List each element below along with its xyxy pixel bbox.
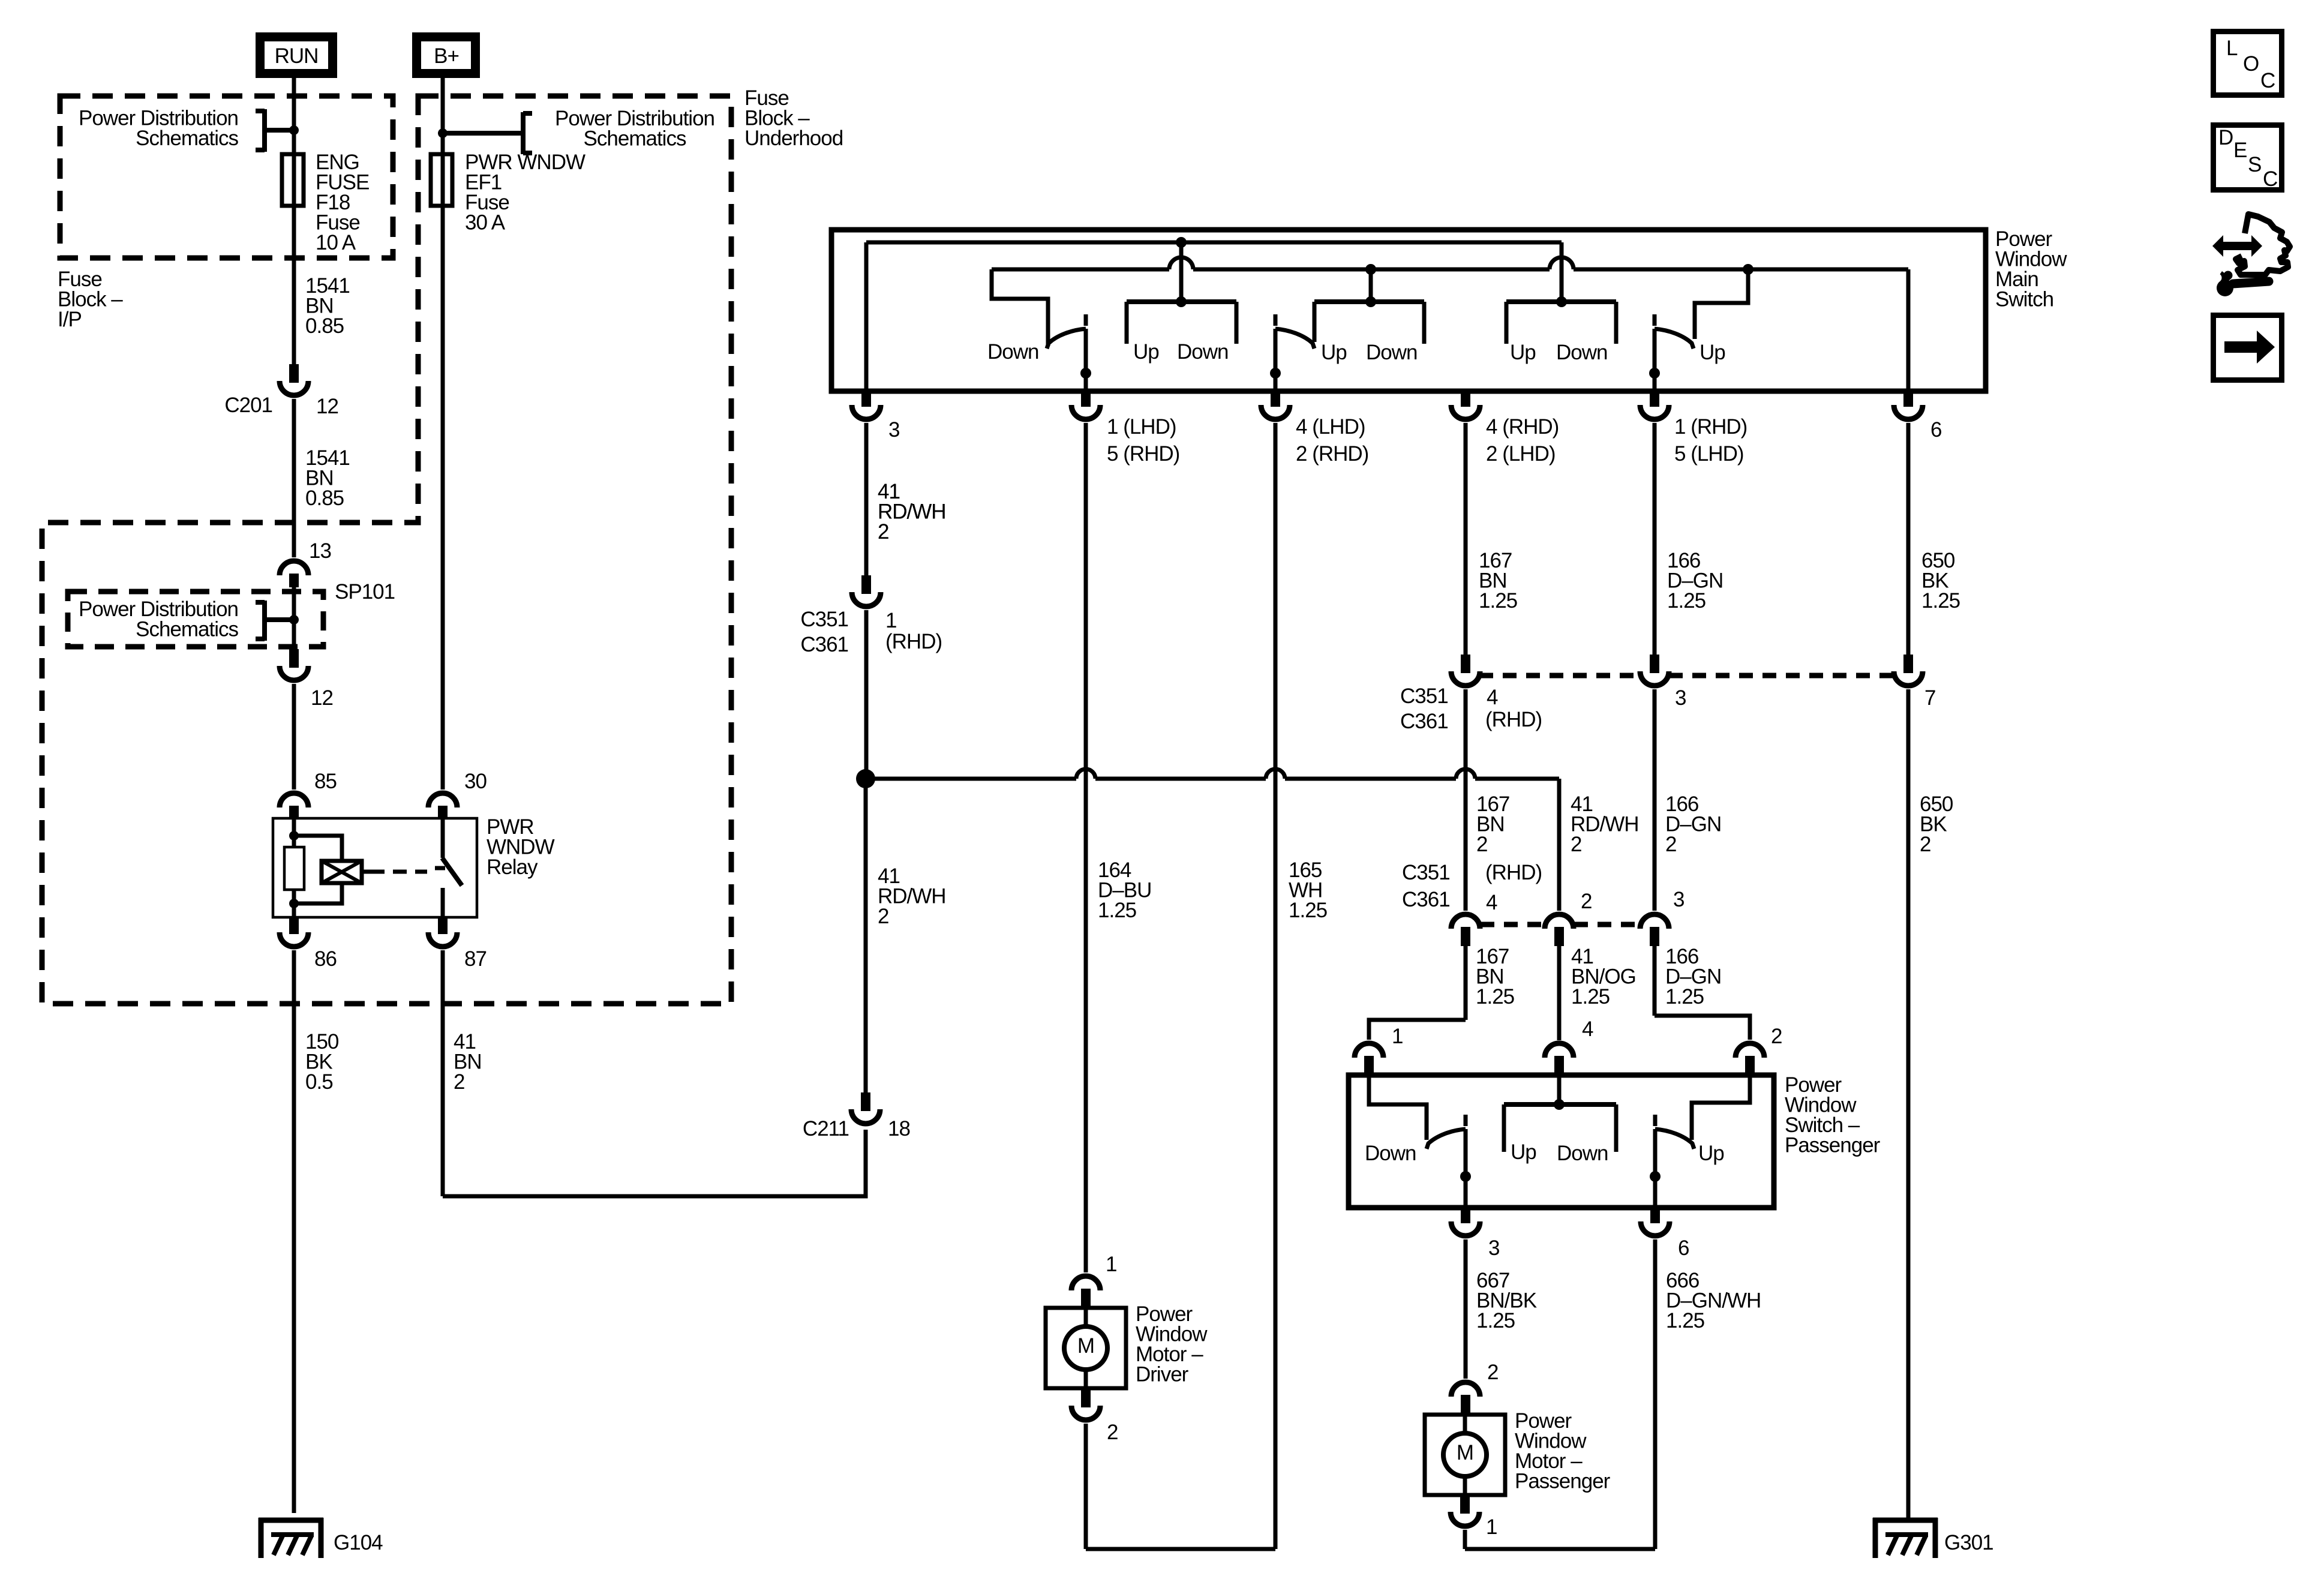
svg-text:4: 4 (1582, 1017, 1593, 1041)
svg-text:D: D (2218, 126, 2233, 149)
svg-text:G104: G104 (334, 1531, 383, 1554)
svg-text:2: 2 (878, 905, 888, 928)
svg-text:2: 2 (1487, 1361, 1498, 1384)
svg-text:Down: Down (1366, 341, 1417, 364)
svg-text:1.25: 1.25 (1098, 899, 1136, 922)
svg-text:C361: C361 (1402, 888, 1450, 911)
svg-text:SP101: SP101 (335, 580, 395, 604)
svg-text:(RHD): (RHD) (1485, 708, 1542, 731)
svg-text:0.5: 0.5 (305, 1070, 333, 1094)
svg-text:Up: Up (1698, 1142, 1724, 1165)
svg-text:87: 87 (464, 947, 487, 971)
svg-text:2 (LHD): 2 (LHD) (1486, 442, 1556, 466)
svg-text:1.25: 1.25 (1667, 589, 1706, 613)
svg-text:O: O (2243, 52, 2259, 76)
svg-text:Driver: Driver (1136, 1363, 1189, 1386)
svg-text:2 (RHD): 2 (RHD) (1296, 442, 1368, 466)
svg-text:7: 7 (1924, 686, 1935, 710)
svg-text:Schematics: Schematics (584, 127, 686, 151)
svg-text:30: 30 (464, 770, 487, 793)
svg-text:5 (RHD): 5 (RHD) (1107, 442, 1179, 466)
svg-text:1.25: 1.25 (1476, 985, 1514, 1008)
svg-text:Down: Down (1365, 1142, 1416, 1165)
svg-text:Up: Up (1510, 341, 1536, 364)
svg-text:Schematics: Schematics (136, 618, 238, 641)
svg-text:C351: C351 (1400, 685, 1448, 708)
svg-text:I/P: I/P (58, 308, 82, 331)
svg-text:86: 86 (314, 947, 337, 971)
svg-text:1 (RHD): 1 (RHD) (1674, 415, 1747, 439)
svg-text:Up: Up (1321, 341, 1347, 364)
svg-text:1: 1 (1106, 1253, 1116, 1276)
svg-text:1.25: 1.25 (1479, 589, 1517, 613)
svg-text:12: 12 (316, 395, 338, 418)
svg-text:C: C (2260, 69, 2275, 92)
svg-text:1.25: 1.25 (1289, 899, 1327, 922)
svg-text:3: 3 (1488, 1236, 1499, 1260)
svg-text:85: 85 (314, 770, 337, 793)
svg-text:2: 2 (1107, 1421, 1118, 1444)
svg-text:30 A: 30 A (465, 211, 506, 235)
svg-text:0.85: 0.85 (305, 487, 344, 510)
svg-text:L: L (2226, 37, 2238, 60)
svg-text:3: 3 (1673, 888, 1684, 911)
svg-text:1: 1 (885, 609, 896, 632)
svg-text:1.25: 1.25 (1476, 1309, 1515, 1332)
svg-text:C211: C211 (803, 1117, 849, 1140)
svg-text:18: 18 (888, 1117, 910, 1140)
svg-text:C351: C351 (1402, 861, 1450, 884)
svg-text:6: 6 (1930, 418, 1941, 442)
svg-text:Up: Up (1700, 341, 1725, 364)
svg-text:C: C (2263, 167, 2277, 191)
svg-text:1.25: 1.25 (1666, 1309, 1704, 1332)
svg-text:Down: Down (987, 340, 1038, 364)
svg-text:(RHD): (RHD) (1485, 861, 1542, 884)
svg-text:4: 4 (1486, 891, 1497, 914)
svg-text:Passenger: Passenger (1785, 1134, 1881, 1157)
svg-text:3: 3 (1675, 686, 1686, 710)
svg-text:S: S (2248, 153, 2261, 176)
svg-text:Schematics: Schematics (136, 127, 238, 150)
svg-text:B+: B+ (434, 44, 459, 68)
svg-text:M: M (1457, 1441, 1473, 1464)
svg-text:2: 2 (878, 520, 888, 544)
svg-text:Underhood: Underhood (744, 127, 843, 150)
svg-text:2: 2 (1476, 833, 1487, 856)
svg-text:2: 2 (1581, 890, 1592, 913)
svg-text:C361: C361 (1400, 710, 1448, 733)
svg-text:Relay: Relay (487, 855, 538, 879)
svg-text:2: 2 (1920, 833, 1930, 856)
svg-text:C361: C361 (800, 633, 848, 656)
svg-text:12: 12 (311, 686, 333, 710)
svg-text:M: M (1077, 1334, 1094, 1358)
svg-text:E: E (2233, 139, 2247, 162)
svg-text:13: 13 (309, 539, 331, 563)
svg-text:RUN: RUN (275, 44, 319, 68)
svg-text:1: 1 (1486, 1515, 1497, 1539)
svg-text:Down: Down (1556, 341, 1607, 364)
svg-text:G301: G301 (1944, 1531, 1993, 1554)
svg-text:3: 3 (888, 418, 899, 442)
svg-text:6: 6 (1678, 1236, 1689, 1260)
svg-text:Up: Up (1511, 1140, 1536, 1164)
svg-text:Passenger: Passenger (1515, 1470, 1611, 1493)
svg-text:2: 2 (454, 1070, 464, 1094)
svg-text:C351: C351 (800, 608, 848, 631)
svg-text:C201: C201 (224, 394, 272, 417)
svg-text:Up: Up (1133, 340, 1159, 364)
svg-text:Down: Down (1557, 1142, 1608, 1165)
svg-text:1.25: 1.25 (1921, 589, 1960, 613)
svg-text:Switch: Switch (1995, 288, 2053, 311)
svg-text:2: 2 (1571, 833, 1581, 856)
svg-text:0.85: 0.85 (305, 314, 344, 338)
svg-text:2: 2 (1665, 833, 1676, 856)
svg-text:Down: Down (1177, 340, 1228, 364)
svg-text:10 A: 10 A (316, 231, 356, 254)
svg-text:2: 2 (1771, 1025, 1782, 1048)
svg-text:1.25: 1.25 (1571, 985, 1610, 1008)
svg-text:4 (LHD): 4 (LHD) (1296, 415, 1365, 439)
svg-text:1: 1 (1392, 1025, 1403, 1048)
svg-text:1 (LHD): 1 (LHD) (1107, 415, 1176, 439)
svg-text:4 (RHD): 4 (RHD) (1486, 415, 1559, 439)
svg-text:5 (LHD): 5 (LHD) (1674, 442, 1744, 466)
svg-text:4: 4 (1487, 686, 1498, 709)
svg-text:1.25: 1.25 (1665, 985, 1704, 1008)
svg-text:(RHD): (RHD) (885, 630, 942, 653)
